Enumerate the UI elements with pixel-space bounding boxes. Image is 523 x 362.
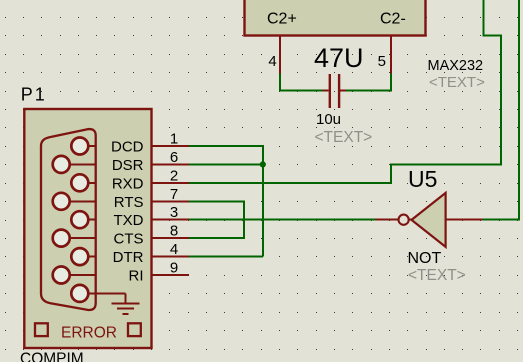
- NOT gate output pin: [376, 219, 412, 221]
- svg-text:4: 4: [170, 241, 178, 258]
- svg-text:5: 5: [378, 53, 386, 70]
- pin names: [111, 139, 144, 285]
- DB9 connector outline: [41, 129, 96, 310]
- svg-text:COMPIM: COMPIM: [20, 350, 84, 362]
- wire pin3 TXD to NOT output: [189, 219, 376, 221]
- svg-text:P1: P1: [21, 85, 47, 105]
- DB9 hole stub lines: [61, 146, 96, 275]
- svg-text:DSR: DSR: [112, 157, 144, 174]
- ERROR checkbox left: [35, 323, 48, 336]
- wire pin4 to cap: [280, 74, 323, 91]
- wire pin6 DSR net: [189, 163, 263, 165]
- ground attach wire: [88, 292, 126, 294]
- MAX232 pin 5 stub: [390, 36, 392, 74]
- capacitor plates: [329, 74, 331, 108]
- svg-text:2: 2: [170, 167, 178, 184]
- capacitor pins: [323, 90, 329, 92]
- svg-text:47U: 47U: [314, 43, 364, 73]
- svg-text:7: 7: [170, 186, 178, 203]
- wire NOT input to MAX232 T1IN: [482, 0, 519, 220]
- svg-text:3: 3: [170, 204, 178, 221]
- svg-text:U5: U5: [408, 166, 437, 192]
- svg-text:ERROR: ERROR: [61, 324, 117, 341]
- wire pin4 DTR net: [189, 256, 263, 258]
- MAX232 pin 4 stub: [279, 36, 281, 74]
- svg-text:C2+: C2+: [267, 11, 297, 28]
- svg-text:RXD: RXD: [112, 175, 144, 192]
- svg-text:DTR: DTR: [113, 249, 144, 266]
- svg-text:DCD: DCD: [111, 139, 144, 156]
- svg-text:6: 6: [170, 149, 178, 166]
- MAX232 body (top, cropped): [245, 0, 426, 36]
- wire pin1 DCD net: [189, 146, 263, 257]
- COMPIM pin stubs: [151, 146, 189, 275]
- DB9 holes: [53, 138, 89, 302]
- svg-text:NOT: NOT: [408, 250, 442, 267]
- svg-text:RI: RI: [129, 268, 144, 285]
- NOT gate U5 input pin: [446, 219, 483, 221]
- svg-text:C2-: C2-: [380, 11, 406, 28]
- svg-text:MAX232: MAX232: [428, 58, 484, 74]
- svg-text:10u: 10u: [316, 111, 341, 128]
- ERROR checkbox right: [128, 323, 141, 336]
- svg-text:1: 1: [170, 131, 178, 148]
- svg-text:<TEXT>: <TEXT>: [315, 129, 373, 146]
- wire cap to pin5: [346, 74, 391, 91]
- svg-text:4: 4: [268, 53, 276, 70]
- wire pin7 RTS to pin8 CTS: [189, 201, 244, 238]
- svg-text:<TEXT>: <TEXT>: [429, 74, 485, 91]
- NOT gate bubble: [399, 215, 409, 225]
- junction dot: [260, 161, 266, 167]
- svg-text:8: 8: [170, 223, 178, 240]
- wire pin2 RXD to MAX232 R1OUT: [189, 0, 501, 183]
- svg-text:CTS: CTS: [114, 231, 144, 248]
- COMPIM P1 body: [24, 109, 151, 348]
- svg-text:<TEXT>: <TEXT>: [408, 267, 466, 284]
- svg-text:TXD: TXD: [114, 212, 144, 229]
- NOT gate triangle: [412, 193, 446, 247]
- ground symbol: [112, 293, 140, 314]
- svg-text:9: 9: [170, 260, 178, 277]
- pin numbers: [170, 131, 178, 277]
- svg-text:RTS: RTS: [114, 194, 144, 211]
